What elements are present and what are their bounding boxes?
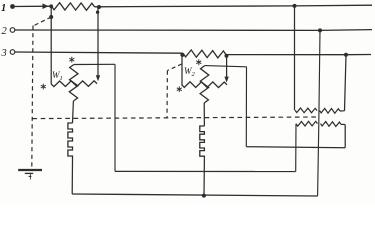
- resistor divider row2 left: [296, 121, 318, 126]
- wire row2 right stub: [341, 123, 345, 125]
- node line3 to divider: [344, 53, 348, 57]
- wire W2v bottom to coil: [203, 103, 205, 126]
- wire line2 right segment: [320, 29, 372, 32]
- wire W2 top to right: [205, 66, 247, 67]
- asterisk polarity mark W2 top: [198, 59, 200, 62]
- wire lower rail W1 to row2 left: [115, 170, 296, 172]
- resistor W2 voltage coil horizontal: [182, 82, 228, 88]
- node ground tap on W1 left vertical: [49, 15, 53, 19]
- arrowhead on line 1: [43, 3, 49, 9]
- node W2 coil bottom junction: [202, 194, 206, 198]
- resistor W2 voltage coil vertical: [200, 66, 209, 103]
- asterisk polarity mark W1 left: [42, 84, 44, 87]
- dashed ground rail horizontal: [33, 117, 317, 119]
- wire row2 left drop: [295, 124, 297, 172]
- wire W1v bottom to coil: [72, 101, 75, 123]
- dashed tap diagonal W1: [34, 17, 51, 26]
- node line1 to divider: [293, 4, 297, 8]
- wire line1 right segment: [295, 4, 373, 7]
- wire line 3 right segment: [226, 54, 346, 56]
- wire line1 middle segment: [95, 5, 295, 8]
- wire W1 right vertical slider: [97, 7, 99, 77]
- wire divider drop from line 1: [294, 6, 296, 110]
- arrowhead W2 slider: [224, 77, 228, 83]
- svg-text:W1: W1: [52, 70, 63, 82]
- resistor divider row2 right: [321, 122, 342, 127]
- svg-text:2: 2: [2, 26, 8, 37]
- terminal 3 circle: [10, 50, 15, 55]
- node R2 right junction: [225, 54, 229, 58]
- terminal 1 dot: [10, 4, 15, 9]
- dashed tap vertical W2: [166, 71, 168, 119]
- wire line 3 left segment: [15, 52, 183, 53]
- wire bottom rail: [72, 194, 317, 196]
- inductor W1 current coil: [68, 123, 73, 159]
- dashed tap diagonal W2: [168, 64, 182, 71]
- node line2 to divider: [318, 28, 322, 32]
- wire W1 coil to bottom rail: [71, 159, 73, 194]
- inductor W2 current coil: [200, 126, 205, 159]
- resistor R1 on line 1: [52, 3, 95, 11]
- wire row1 right stub: [340, 110, 345, 112]
- arrowhead W1 slider: [96, 75, 100, 81]
- wire W2 coil to bottom rail: [203, 159, 205, 196]
- wire W2 right vertical slider: [226, 56, 228, 78]
- svg-text:3: 3: [1, 48, 7, 59]
- wire W2 drop to mid rail: [245, 67, 247, 147]
- dashed ground vertical: [32, 26, 33, 168]
- svg-text:1: 1: [1, 3, 6, 14]
- wire divider drop from line 3: [345, 55, 347, 111]
- wire W1 drop to lower rail: [114, 64, 116, 171]
- wire line 2: [15, 29, 320, 31]
- wire row2 right drop: [344, 125, 346, 148]
- svg-text:W2: W2: [184, 66, 196, 78]
- wire mid rail W2 to row2 right: [246, 147, 345, 148]
- resistor R2 on line 3: [183, 50, 226, 58]
- wire W1 left vertical: [50, 6, 52, 84]
- wire line3 right end: [346, 54, 371, 56]
- wire line1 left segment: [13, 5, 52, 7]
- resistor W1 voltage coil horizontal: [51, 81, 97, 87]
- node line1/R1 right junction: [97, 5, 101, 9]
- terminal 2 circle: [10, 28, 15, 33]
- wire W1 top to right: [74, 63, 115, 65]
- resistor divider row1 left: [295, 108, 317, 113]
- resistor divider row1 right: [320, 108, 341, 113]
- resistor W1 voltage coil vertical: [69, 65, 78, 102]
- node R2 left junction: [180, 53, 184, 57]
- wire divider middle drop: [318, 30, 320, 196]
- ground: [18, 169, 42, 171]
- node W1 left top junction: [49, 4, 53, 8]
- wire W2 left vertical: [181, 55, 183, 85]
- asterisk polarity mark W2 left: [178, 86, 180, 89]
- node W1 slider top: [96, 11, 99, 14]
- asterisk polarity mark W1 top: [71, 57, 73, 60]
